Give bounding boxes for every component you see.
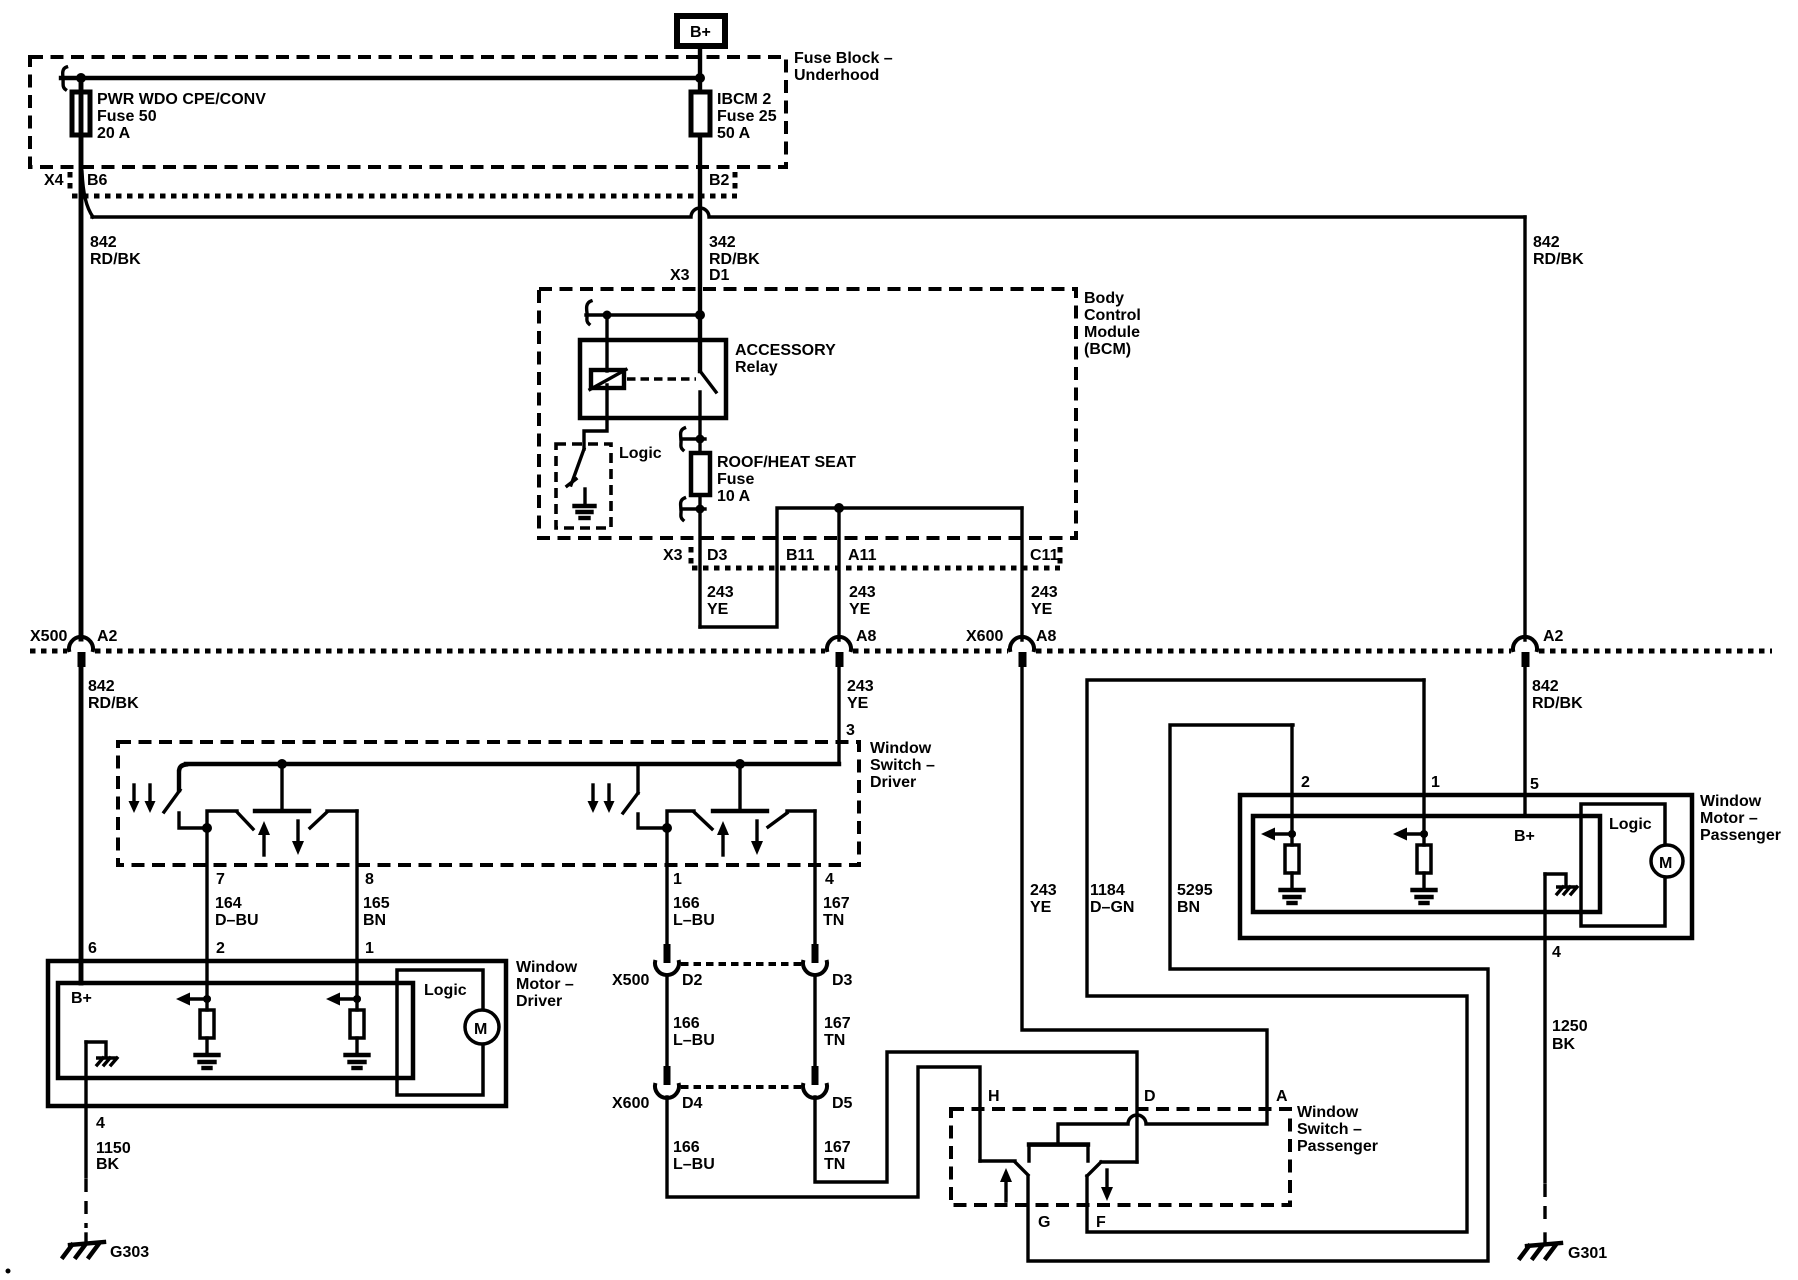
- label Logic passenger motor: [1609, 816, 1652, 833]
- junction dot pin 2 arrow: [203, 995, 211, 1003]
- direction arrow pin 1: [326, 993, 359, 1006]
- svg-text:3: 3: [846, 722, 855, 739]
- svg-text:Window: Window: [1297, 1104, 1359, 1121]
- passenger switch pin labels bottom: [1038, 1214, 1106, 1231]
- wire 842 RD/BK right drop to X500 A2: [1523, 217, 1526, 640]
- svg-text:243: 243: [849, 584, 876, 601]
- down contact bracket right rocker: [787, 809, 815, 812]
- label Window Switch Passenger: [1297, 1104, 1378, 1155]
- logic switch blade: [567, 449, 584, 486]
- contact stub right group: [638, 814, 667, 828]
- svg-text:A8: A8: [856, 628, 877, 645]
- svg-text:RD/BK: RD/BK: [1533, 251, 1584, 268]
- junction dot passenger pin 2 arrow: [1288, 830, 1296, 838]
- svg-text:842: 842: [1532, 678, 1559, 695]
- wire pin 1 into passenger motor: [1422, 680, 1425, 845]
- svg-text:B11: B11: [786, 547, 815, 564]
- svg-text:243: 243: [847, 678, 874, 695]
- svg-text:Driver: Driver: [870, 774, 916, 791]
- svg-text:4: 4: [96, 1115, 105, 1132]
- label 243 YE at C11: [1031, 584, 1058, 618]
- svg-text:Control: Control: [1084, 307, 1141, 324]
- svg-text:X600: X600: [966, 628, 1003, 645]
- wire 166 between X500 and X600: [665, 975, 668, 1066]
- connector terminal X500 A2 left: [69, 637, 93, 667]
- wire 842 RD/BK left feed to driver motor: [79, 666, 84, 983]
- rocker bridge passenger switch: [1029, 1145, 1088, 1162]
- direction arrow pin 2: [176, 993, 209, 1006]
- svg-text:D: D: [1144, 1088, 1156, 1105]
- junction dot passenger pin 1 arrow: [1420, 830, 1428, 838]
- wire 166 L-BU route to passenger switch H: [667, 1067, 980, 1197]
- svg-text:5295: 5295: [1177, 882, 1213, 899]
- breaker blade left group: [164, 790, 180, 812]
- label B+ passenger motor: [1514, 828, 1535, 845]
- wire pin 1 drop 166 L-BU: [665, 828, 668, 943]
- svg-text:1250: 1250: [1552, 1018, 1588, 1035]
- svg-text:B+: B+: [1514, 828, 1535, 845]
- svg-text:Motor –: Motor –: [516, 976, 574, 993]
- svg-text:YE: YE: [847, 695, 869, 712]
- ground symbol pin 1 driver motor: [346, 1038, 369, 1068]
- svg-text:G303: G303: [110, 1244, 149, 1261]
- connector terminal X600 A8: [1010, 637, 1034, 667]
- wire 842 RD/BK right feed to passenger motor: [1523, 666, 1526, 816]
- up arrow left rocker: [258, 821, 270, 855]
- ground symbol pin 2 driver motor: [196, 1038, 219, 1068]
- label 166 L-BU upper: [673, 895, 715, 929]
- svg-text:Fuse Block –: Fuse Block –: [794, 50, 893, 67]
- auto-down arrows right group: [588, 785, 615, 813]
- svg-text:TN: TN: [824, 1156, 845, 1173]
- breaker feed right group: [636, 764, 639, 793]
- svg-text:Logic: Logic: [424, 982, 467, 999]
- ground G301: [1520, 1243, 1607, 1262]
- svg-text:165: 165: [363, 895, 390, 912]
- svg-text:243: 243: [1030, 882, 1057, 899]
- svg-text:A: A: [1276, 1088, 1288, 1105]
- svg-text:BN: BN: [363, 912, 386, 929]
- label 1184 D-GN: [1090, 882, 1134, 916]
- wire pin 2 into passenger motor: [1290, 725, 1293, 845]
- blade H-G: [1015, 1162, 1028, 1175]
- rocker stem left: [280, 764, 283, 811]
- resistor pin 2 passenger motor: [1285, 845, 1299, 873]
- svg-text:Switch –: Switch –: [870, 757, 935, 774]
- wire pin 4 1150 BK drop: [84, 1042, 87, 1243]
- connector terminal X600 D5: [803, 1066, 827, 1098]
- svg-text:H: H: [988, 1088, 1000, 1105]
- svg-text:Module: Module: [1084, 324, 1140, 341]
- label Logic driver motor: [424, 982, 467, 999]
- up arrow passenger switch: [1000, 1168, 1012, 1201]
- label 167 TN mid: [824, 1015, 851, 1049]
- svg-text:D3: D3: [832, 972, 853, 989]
- svg-text:TN: TN: [823, 912, 844, 929]
- svg-text:243: 243: [707, 584, 734, 601]
- svg-text:Motor –: Motor –: [1700, 810, 1758, 827]
- svg-text:1: 1: [365, 940, 374, 957]
- wire fuse 50 output down to X500 A2 (842 RD/BK left feed): [79, 78, 84, 639]
- contact H horizontal: [980, 1159, 1015, 1162]
- svg-text:7: 7: [216, 871, 225, 888]
- label Body Control Module (BCM): [1084, 290, 1141, 358]
- driver motor pin number labels: [88, 940, 374, 957]
- wire roof fuse output down through D3: [698, 495, 701, 627]
- svg-text:A8: A8: [1036, 628, 1057, 645]
- chassis ground bracket passenger motor: [1545, 874, 1577, 894]
- svg-text:RD/BK: RD/BK: [709, 251, 760, 268]
- wire pin 1 into driver motor: [355, 983, 358, 1010]
- svg-text:RD/BK: RD/BK: [90, 251, 141, 268]
- svg-text:IBCM 2: IBCM 2: [717, 91, 771, 108]
- connector X500/X600 row labels: [30, 628, 1564, 645]
- label 243 YE at driver switch feed: [846, 678, 874, 739]
- svg-text:G: G: [1038, 1214, 1050, 1231]
- svg-text:BK: BK: [96, 1156, 120, 1173]
- label pin 4 1250 BK: [1552, 944, 1588, 1053]
- wire 243 YE from A8 into driver switch: [837, 666, 840, 764]
- resistor pin 2 driver motor: [200, 1010, 214, 1038]
- label Window Motor Driver: [516, 959, 578, 1010]
- label 166 L-BU lower: [673, 1139, 715, 1173]
- svg-text:4: 4: [1552, 944, 1561, 961]
- svg-text:L–BU: L–BU: [673, 1032, 715, 1049]
- window switch passenger dashed box: [951, 1109, 1290, 1205]
- wire 342 RD/BK down into BCM: [698, 135, 702, 371]
- svg-text:BK: BK: [1552, 1036, 1576, 1053]
- rocker stem right: [738, 764, 741, 811]
- wire relay coil feed horizontal: [586, 313, 700, 316]
- wire 167 between X500 and X600: [813, 975, 816, 1066]
- logic dashed box in BCM: [556, 444, 611, 528]
- svg-text:Body: Body: [1084, 290, 1124, 307]
- wire 5295 BN motor pin 2 to passenger switch G: [1028, 725, 1488, 1261]
- svg-text:5: 5: [1530, 776, 1539, 793]
- motor M symbol driver: [465, 1010, 499, 1044]
- svg-text:C11: C11: [1030, 547, 1059, 564]
- up arrow right rocker: [717, 821, 729, 855]
- junction dot pin 1 arrow: [353, 995, 361, 1003]
- connector terminal X500 A8: [827, 637, 851, 667]
- wire 1184 D-GN motor pin 1 to passenger switch F: [1087, 680, 1467, 1232]
- wire pin 4 1250 BK drop: [1543, 874, 1546, 1243]
- svg-text:50 A: 50 A: [717, 125, 751, 142]
- body control module BCM dashed box: [539, 289, 1076, 538]
- contact D horizontal: [1101, 1160, 1137, 1163]
- resistor pin 1 passenger motor: [1417, 845, 1431, 873]
- label roof/heat seat fuse: [717, 454, 856, 505]
- svg-text:842: 842: [1533, 234, 1560, 251]
- svg-text:BN: BN: [1177, 899, 1200, 916]
- svg-text:Fuse 50: Fuse 50: [97, 108, 157, 125]
- svg-text:D4: D4: [682, 1095, 703, 1112]
- wire pin 4 drop 167 TN: [813, 811, 816, 943]
- svg-text:1: 1: [673, 871, 682, 888]
- label pin 4 1150 BK: [96, 1115, 131, 1173]
- junction dot right rocker stem: [735, 759, 745, 769]
- connector terminal X600 D4: [655, 1066, 679, 1098]
- connector X3 bottom row labels: [663, 547, 1059, 564]
- wire fuse block internal bus: [61, 76, 700, 80]
- svg-text:B+: B+: [690, 24, 711, 41]
- blade D-F: [1087, 1162, 1101, 1176]
- svg-text:X600: X600: [612, 1095, 649, 1112]
- label 166 L-BU mid: [673, 1015, 715, 1049]
- label 842 RD/BK right: [1533, 234, 1584, 268]
- label 243 YE lower: [1030, 882, 1057, 916]
- window motor passenger inner box: [1253, 816, 1600, 912]
- wire pin 7 drop 164 D-BU: [205, 828, 208, 983]
- wire coil to logic switch: [584, 385, 607, 449]
- svg-text:B+: B+: [71, 990, 92, 1007]
- svg-text:X500: X500: [612, 972, 649, 989]
- svg-text:Fuse: Fuse: [717, 471, 754, 488]
- svg-text:L–BU: L–BU: [673, 912, 715, 929]
- svg-text:D2: D2: [682, 972, 703, 989]
- relay coil-contact dashed link: [627, 377, 696, 380]
- svg-text:YE: YE: [707, 601, 729, 618]
- svg-text:8: 8: [365, 871, 374, 888]
- wire 243 YE long drop from X600 A8 to passenger switch A with hop over D: [1022, 666, 1267, 1143]
- wire branch curve from fuse 50 feed to 842 bus: [82, 172, 93, 217]
- wire 167 TN route to passenger switch D: [815, 1052, 1137, 1182]
- auto-down arrows left group: [129, 785, 156, 813]
- window switch driver dashed box: [118, 742, 859, 865]
- label fuse 50: [97, 91, 266, 142]
- wire 243 YE from D3 up through B11 across to C11: [700, 508, 1022, 627]
- svg-text:D–BU: D–BU: [215, 912, 259, 929]
- svg-text:243: 243: [1031, 584, 1058, 601]
- svg-text:D3: D3: [707, 547, 728, 564]
- connector X4 row labels: [44, 172, 730, 189]
- svg-text:Passenger: Passenger: [1297, 1138, 1378, 1155]
- accessory relay box: [580, 340, 726, 418]
- svg-text:167: 167: [824, 1139, 851, 1156]
- label 164 D-BU: [215, 895, 259, 929]
- splice curl at relay feed left end: [587, 301, 591, 324]
- svg-text:B6: B6: [87, 172, 108, 189]
- svg-text:YE: YE: [1030, 899, 1052, 916]
- svg-text:6: 6: [88, 940, 97, 957]
- driver switch pin labels: [216, 871, 834, 888]
- fuse F25 IBCM 2: [691, 92, 710, 135]
- connector X500/X600 main row dotted line: [30, 649, 1772, 654]
- breaker blade right group: [623, 793, 638, 813]
- svg-text:RD/BK: RD/BK: [1532, 695, 1583, 712]
- label Window Motor Passenger: [1700, 793, 1781, 844]
- svg-text:RD/BK: RD/BK: [88, 695, 139, 712]
- svg-text:Window: Window: [870, 740, 932, 757]
- svg-text:4: 4: [825, 871, 834, 888]
- svg-text:Window: Window: [1700, 793, 1762, 810]
- svg-text:D–GN: D–GN: [1090, 899, 1134, 916]
- label 243 YE at D3: [707, 584, 734, 618]
- direction arrow passenger pin 1: [1393, 828, 1426, 841]
- svg-text:YE: YE: [1031, 601, 1053, 618]
- connector X600 D4 D5 row: [612, 1087, 853, 1112]
- label fuse 25: [717, 91, 777, 142]
- chassis ground bracket driver motor: [86, 1042, 117, 1065]
- label 5295 BN: [1177, 882, 1213, 916]
- label 842 RD/BK lower left: [88, 678, 139, 712]
- connector terminal X500 D2: [655, 944, 679, 975]
- svg-text:ACCESSORY: ACCESSORY: [735, 342, 836, 359]
- label 165 BN: [363, 895, 390, 929]
- relay switch blade: [700, 371, 716, 392]
- svg-text:X3: X3: [663, 547, 683, 564]
- svg-text:167: 167: [824, 1015, 851, 1032]
- up contact blade left rocker: [237, 812, 253, 829]
- svg-text:L–BU: L–BU: [673, 1156, 715, 1173]
- label 842 RD/BK lower right: [1532, 678, 1583, 712]
- label 243 YE at A11: [849, 584, 876, 618]
- junction dot left rocker stem: [277, 759, 287, 769]
- label Logic BCM: [619, 445, 662, 462]
- svg-text:Logic: Logic: [1609, 816, 1652, 833]
- driver motor logic box: [397, 970, 483, 1095]
- ground symbol pin 1 passenger motor: [1413, 873, 1436, 903]
- svg-text:D5: D5: [832, 1095, 853, 1112]
- svg-text:Underhood: Underhood: [794, 67, 879, 84]
- connector X3 D1 labels: [670, 267, 730, 284]
- wire driver switch internal bus: [179, 764, 839, 790]
- junction dot bus to fuse 25: [695, 73, 705, 83]
- contact stub left group: [179, 813, 207, 828]
- svg-text:D1: D1: [709, 267, 730, 284]
- svg-text:10 A: 10 A: [717, 488, 751, 505]
- connector terminal X500 A2 right: [1513, 637, 1537, 667]
- svg-text:164: 164: [215, 895, 242, 912]
- svg-text:A2: A2: [1543, 628, 1564, 645]
- connector X3 bottom dotted row: [691, 547, 1060, 568]
- svg-text:M: M: [1659, 855, 1672, 872]
- connector X4 dotted row: [70, 172, 737, 196]
- wire pin 8 drop 165 BN: [355, 811, 358, 983]
- passenger motor pin labels: [1301, 774, 1539, 793]
- svg-text:YE: YE: [849, 601, 871, 618]
- svg-text:ROOF/HEAT SEAT: ROOF/HEAT SEAT: [717, 454, 856, 471]
- svg-text:342: 342: [709, 234, 736, 251]
- up contact blade right rocker: [694, 812, 712, 829]
- svg-text:166: 166: [673, 1015, 700, 1032]
- wire B+ feed down into fuse block: [698, 46, 702, 92]
- svg-text:842: 842: [90, 234, 117, 251]
- svg-text:166: 166: [673, 895, 700, 912]
- label 167 TN upper: [823, 895, 850, 929]
- svg-text:Fuse 25: Fuse 25: [717, 108, 777, 125]
- svg-text:Driver: Driver: [516, 993, 562, 1010]
- junction dot A11 branch: [834, 503, 844, 513]
- passenger motor logic box: [1581, 804, 1665, 926]
- down contact blade right rocker: [768, 813, 787, 827]
- ground G303: [63, 1242, 149, 1261]
- svg-text:1: 1: [1431, 774, 1440, 791]
- junction dot relay feed: [695, 310, 705, 320]
- svg-text:20 A: 20 A: [97, 125, 131, 142]
- label Fuse Block - Underhood: [794, 50, 893, 84]
- svg-text:X4: X4: [44, 172, 64, 189]
- down arrow right rocker: [751, 821, 763, 855]
- svg-text:842: 842: [88, 678, 115, 695]
- svg-text:Window: Window: [516, 959, 578, 976]
- node B+ battery terminal box: [677, 16, 725, 46]
- svg-text:PWR WDO CPE/CONV: PWR WDO CPE/CONV: [97, 91, 266, 108]
- junction dot bus to fuse 50: [76, 73, 86, 83]
- svg-text:F: F: [1096, 1214, 1106, 1231]
- inline connector tick below roof fuse: [681, 498, 705, 520]
- connector terminal X500 D3: [803, 944, 827, 975]
- down arrow left rocker: [292, 821, 304, 855]
- fuse F50 PWR WDO CPE/CONV: [72, 92, 90, 135]
- wire 243 YE C11 drop: [1020, 508, 1023, 640]
- svg-text:Relay: Relay: [735, 359, 778, 376]
- wire 243 YE A11 drop: [837, 508, 840, 640]
- label B+ driver motor: [71, 990, 92, 1007]
- wire relay output down to roof fuse: [698, 392, 701, 453]
- up contact bracket left rocker: [207, 811, 237, 828]
- direction arrow passenger pin 2: [1261, 828, 1294, 841]
- label 842 RD/BK left: [90, 234, 141, 268]
- svg-text:G301: G301: [1568, 1245, 1607, 1262]
- down contact blade left rocker: [310, 812, 327, 828]
- label ACCESSORY Relay: [735, 342, 836, 376]
- svg-text:1184: 1184: [1090, 882, 1125, 899]
- svg-text:Logic: Logic: [619, 445, 662, 462]
- svg-text:Passenger: Passenger: [1700, 827, 1781, 844]
- stray mark bottom-left: [6, 1269, 11, 1274]
- svg-text:2: 2: [216, 940, 225, 957]
- splice curl at bus left end: [63, 67, 67, 90]
- wire 842 RD/BK horizontal bus to passenger side with hop over 342: [92, 208, 1525, 217]
- wire coil drop into relay: [605, 315, 608, 371]
- up contact bracket right rocker: [667, 811, 694, 828]
- relay coil symbol: [590, 370, 626, 390]
- svg-text:(BCM): (BCM): [1084, 341, 1131, 358]
- window motor driver inner box: [58, 983, 413, 1078]
- window motor passenger outer box: [1240, 795, 1692, 938]
- svg-text:A2: A2: [97, 628, 118, 645]
- svg-text:X3: X3: [670, 267, 690, 284]
- junction dot pin 7 node: [202, 823, 212, 833]
- svg-text:A11: A11: [848, 547, 877, 564]
- svg-text:2: 2: [1301, 774, 1310, 791]
- ground symbol in BCM logic: [575, 489, 595, 518]
- resistor pin 1 driver motor: [350, 1010, 364, 1038]
- passenger switch pin labels top: [988, 1088, 1288, 1105]
- svg-text:167: 167: [823, 895, 850, 912]
- wire pin 2 into driver motor: [205, 983, 208, 1010]
- junction dot coil drop: [603, 311, 612, 320]
- rocker pivot bar left: [255, 809, 309, 813]
- svg-text:B2: B2: [709, 172, 730, 189]
- svg-text:TN: TN: [824, 1032, 845, 1049]
- junction dot pin 1 node: [662, 823, 672, 833]
- fuse ROOF/HEAT SEAT: [691, 453, 710, 495]
- motor M symbol passenger: [1651, 845, 1683, 877]
- label Window Switch Driver: [870, 740, 935, 791]
- fuse block underhood dashed box: [30, 57, 786, 167]
- svg-text:X500: X500: [30, 628, 67, 645]
- rocker pivot bar right: [713, 809, 767, 813]
- window motor driver outer box: [48, 961, 506, 1106]
- inline connector tick above roof fuse: [681, 428, 705, 450]
- svg-text:M: M: [474, 1021, 487, 1038]
- label 342 RD/BK: [709, 234, 760, 268]
- ground symbol pin 2 passenger motor: [1281, 873, 1304, 903]
- svg-text:166: 166: [673, 1139, 700, 1156]
- connector X500 D2 D3 row: [612, 964, 853, 989]
